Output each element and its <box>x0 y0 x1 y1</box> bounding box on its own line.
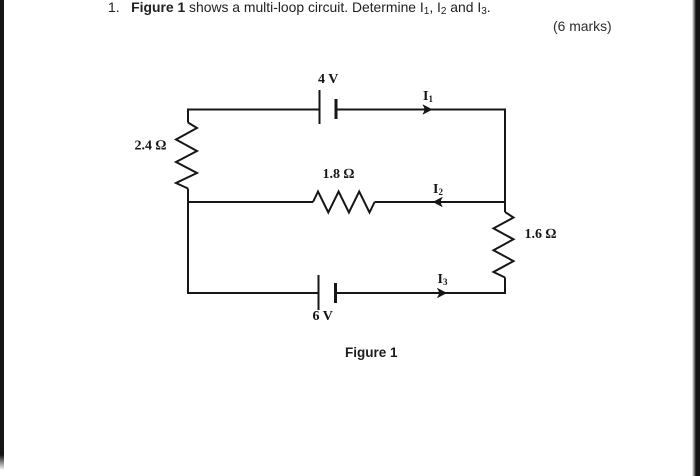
svg-text:6 V: 6 V <box>313 309 333 324</box>
marks note <box>553 18 612 34</box>
figure caption <box>345 345 398 360</box>
wire left lower segment (resistor R1 down to bottom-left corner) <box>187 189 189 295</box>
wire right upper segment (top-right corner down to node B) <box>504 109 506 213</box>
value label 6 V <box>313 309 333 324</box>
value label 1.6 ohm <box>525 227 557 242</box>
header problem text <box>108 0 491 15</box>
current label I2 <box>433 182 443 197</box>
resistor R1 2.4 ohm (zigzag) <box>176 123 197 189</box>
svg-text:1.8 Ω: 1.8 Ω <box>323 167 355 182</box>
value label 2.4 ohm <box>135 139 167 154</box>
battery B1 4V long plate (+) <box>319 90 321 124</box>
current arrow I3 (pointing right) <box>438 288 447 297</box>
wire right lower segment (resistor R3 down to bottom-right corner) <box>504 278 506 295</box>
wire top-left segment (top wire from left corner to battery B1) <box>188 109 320 111</box>
svg-text:I3: I3 <box>438 272 448 287</box>
wire bottom-left segment (bottom-left corner to battery B2) <box>188 292 319 294</box>
value label 1.8 ohm <box>323 167 355 182</box>
svg-text:4 V: 4 V <box>318 72 338 87</box>
battery B1 4V short plate (-) <box>335 99 338 119</box>
left edge black bar <box>0 0 4 470</box>
svg-text:I1: I1 <box>423 89 433 104</box>
svg-text:2.4 Ω: 2.4 Ω <box>135 139 167 154</box>
wire bottom-right segment (battery B2 to bottom-right corner) <box>336 292 506 294</box>
right edge black bar <box>692 0 700 476</box>
current arrow I2 (pointing left) <box>433 197 442 206</box>
resistor R2 1.8 ohm (zigzag) <box>313 192 375 213</box>
battery B2 6V long plate (+) <box>318 275 320 310</box>
resistor R3 1.6 ohm (zigzag) <box>494 212 514 278</box>
wire left upper segment (top-left corner down to resistor R1) <box>187 109 189 123</box>
wire middle-left segment (node A to resistor R2) <box>188 201 313 203</box>
svg-text:1.6 Ω: 1.6 Ω <box>525 227 557 242</box>
current label I1 <box>423 89 433 104</box>
current arrow I1 (pointing right) <box>423 105 432 114</box>
wire middle-right segment (resistor R2 to node B on right wire) <box>375 201 505 203</box>
value label 4 V <box>318 72 338 87</box>
wire top-right segment (battery B1 to top-right corner) <box>336 109 505 111</box>
battery B2 6V short plate (-) <box>334 283 337 303</box>
current label I3 <box>438 272 448 287</box>
svg-text:I2: I2 <box>433 182 443 197</box>
